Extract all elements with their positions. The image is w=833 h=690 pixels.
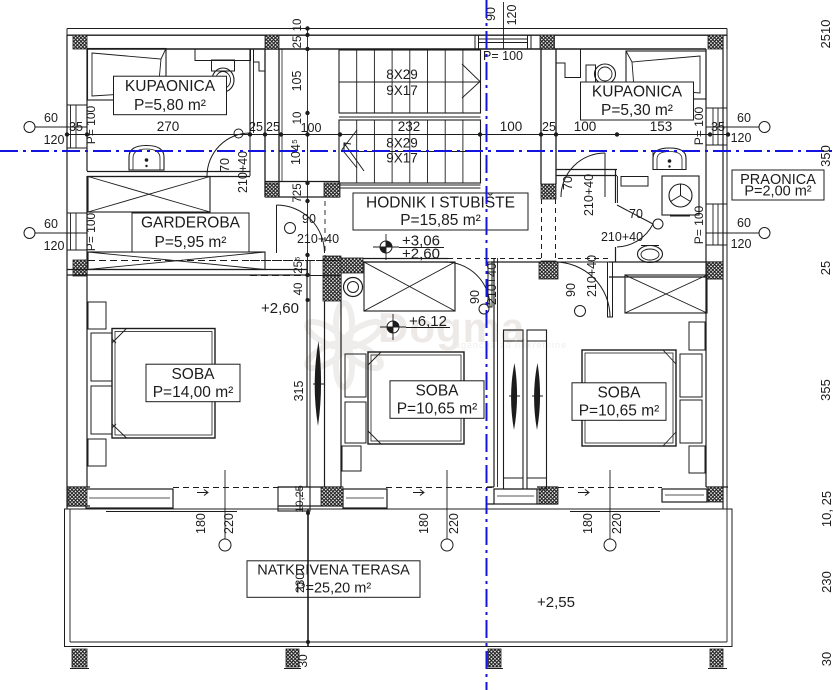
svg-text:+2,60: +2,60 [261, 300, 299, 317]
svg-text:725: 725 [292, 183, 304, 202]
toilet left bathroom [212, 60, 235, 71]
svg-text:120: 120 [731, 237, 752, 251]
room label GARDEROBA [132, 213, 249, 252]
svg-text:180: 180 [581, 513, 595, 534]
svg-text:KUPAONICA: KUPAONICA [592, 84, 683, 101]
bed soba3 fold marks [663, 350, 676, 364]
svg-text:100: 100 [500, 119, 523, 134]
toilet right bathroom [586, 65, 596, 83]
staircase lower flight [339, 120, 481, 183]
bed soba2 fold marks [368, 352, 381, 365]
vertical dimension line left of stairs [307, 29, 309, 276]
svg-text:70: 70 [218, 158, 232, 172]
counter left bathroom [195, 49, 251, 61]
svg-text:9X17: 9X17 [386, 151, 418, 166]
column hatch stairs south [324, 183, 340, 197]
elevation marker hodnik +3,06 [373, 234, 399, 260]
column hatch corridor east low [541, 261, 556, 276]
svg-text:8X29: 8X29 [386, 136, 418, 151]
svg-text:SOBA: SOBA [415, 383, 459, 400]
column hatch soba2 west vertical [323, 256, 341, 301]
room label HODNIK I STUBISTE [353, 193, 528, 230]
room label KUPAONICA right [581, 82, 694, 120]
svg-text:2510: 2510 [818, 20, 833, 49]
svg-text:GARDEROBA: GARDEROBA [141, 215, 241, 232]
svg-text:315: 315 [292, 381, 306, 402]
column hatch soba3 ne [707, 262, 723, 279]
svg-text:NATKRIVENA TERASA: NATKRIVENA TERASA [257, 563, 410, 579]
svg-text:SOBA: SOBA [171, 366, 215, 383]
bed soba1 nightstands [88, 302, 106, 329]
bathtub right [626, 51, 706, 99]
bathtub left [88, 49, 167, 101]
corridor inner face line [281, 49, 283, 182]
bottom window SOBA2 [343, 489, 387, 508]
column hatch top-right [708, 35, 723, 49]
left wall window 2 (garderoba) [67, 212, 87, 214]
bed soba3 [582, 350, 676, 446]
svg-text:+2,60: +2,60 [402, 246, 440, 263]
soba2 north wall dashed opening [448, 258, 491, 260]
outline roof overhang left [66, 29, 68, 510]
column hatch soba2 west horizontal [341, 258, 363, 273]
svg-text:105: 105 [290, 71, 304, 92]
svg-text:25⁵: 25⁵ [293, 256, 305, 274]
column hatch top wall / corridor [265, 35, 279, 49]
bed soba3 pillows [680, 354, 702, 397]
svg-text:P=15,85 m²: P=15,85 m² [400, 212, 481, 229]
svg-text:230: 230 [819, 571, 833, 593]
right leader circle 2 [706, 232, 759, 234]
terrace door leader soba2 [446, 470, 448, 539]
soba3 north wall dashed opening [558, 258, 609, 260]
svg-text:180: 180 [417, 513, 431, 534]
column hatch left wall bottom [68, 487, 87, 506]
svg-text:25: 25 [292, 36, 304, 49]
staircase landing lines [339, 116, 481, 118]
svg-text:KUPAONICA: KUPAONICA [125, 78, 216, 95]
svg-text:210+40: 210+40 [585, 255, 599, 297]
bottom wall of rooms [67, 486, 90, 488]
terrace post hatch 4 [710, 649, 723, 667]
svg-text:P=5,80 m²: P=5,80 m² [134, 97, 206, 114]
svg-text:270: 270 [157, 119, 180, 134]
svg-text:120: 120 [44, 239, 65, 253]
svg-text:90: 90 [302, 212, 316, 226]
column hatch left wall mid [73, 260, 87, 276]
corridor west wall (left of stairs) [264, 49, 266, 197]
svg-text:35: 35 [711, 120, 725, 134]
svg-text:P=25,20 m²: P=25,20 m² [296, 581, 372, 597]
svg-text:120: 120 [44, 133, 65, 147]
svg-text:agencija za nekretnine: agencija za nekretnine [455, 340, 567, 350]
bottom window SOBA1 [86, 489, 173, 508]
column hatch top wall right of stairs [540, 35, 555, 49]
left leader circle 1 [35, 126, 87, 128]
garderoba door (from hall) [277, 205, 325, 253]
svg-text:P= 100: P= 100 [483, 49, 523, 63]
svg-text:30: 30 [296, 654, 310, 668]
sink praonica lobby [653, 148, 686, 170]
svg-text:60: 60 [737, 111, 751, 125]
right leader circle 1 [706, 126, 759, 128]
bed soba2 [368, 352, 464, 444]
svg-text:350: 350 [818, 145, 833, 167]
main horizontal dimension line [67, 134, 728, 136]
wall between soba1 and soba2 [306, 260, 308, 487]
svg-text:210+40: 210+40 [236, 151, 250, 193]
bed soba1 pillows [91, 333, 112, 381]
soba2 north wall [341, 258, 448, 260]
left exterior wall [66, 35, 68, 509]
blue axis vertical [486, 0, 488, 690]
svg-text:60: 60 [737, 216, 751, 230]
room label SOBA 1 [146, 364, 240, 402]
svg-text:60: 60 [44, 217, 58, 231]
svg-text:P=5,95 m²: P=5,95 m² [155, 234, 227, 251]
cabinet praonica [621, 177, 648, 187]
svg-text:25: 25 [818, 261, 833, 275]
svg-text:8X29: 8X29 [386, 67, 418, 82]
outline roof overhang right [726, 29, 728, 510]
bottom window SOBA3a [494, 489, 537, 504]
stair walk arrow [344, 143, 364, 171]
svg-text:220: 220 [447, 513, 461, 534]
bathroom1 door [207, 133, 250, 176]
terrace post hatch 2 [286, 649, 299, 667]
svg-text:P=2,00 m²: P=2,00 m² [744, 183, 811, 199]
terrace slab outline [65, 509, 733, 647]
svg-text:P= 100: P= 100 [692, 106, 706, 145]
elevation marker soba2 +6,12 [380, 314, 406, 340]
svg-text:+2,55: +2,55 [537, 594, 575, 611]
svg-text:90: 90 [564, 283, 578, 297]
svg-text:60: 60 [44, 111, 58, 125]
garderoba south wall [67, 269, 307, 271]
svg-text:100: 100 [574, 119, 597, 134]
dashed wall corridor east lower [541, 199, 543, 261]
column hatch bottom wall soba2/3 [539, 487, 558, 504]
terrace door arrows [197, 490, 208, 496]
svg-text:220: 220 [610, 513, 624, 534]
stair break mark lower [342, 130, 357, 168]
svg-text:SOBA: SOBA [597, 385, 641, 402]
svg-text:70: 70 [629, 207, 643, 221]
room label SOBA 2 [390, 381, 484, 419]
bed soba2 nightstand [342, 446, 361, 471]
svg-text:120: 120 [505, 5, 519, 26]
sliding leaf soba1/2 [315, 341, 321, 426]
svg-text:120: 120 [731, 131, 752, 145]
svg-text:P= 100: P= 100 [84, 212, 98, 251]
garderoba lower dashed centerline [88, 260, 340, 262]
dashed line x=325 [324, 201, 326, 276]
svg-text:P= 100: P= 100 [692, 205, 706, 244]
toilet wc [638, 246, 663, 263]
column hatch corridor west [265, 183, 279, 197]
column hatch right wall mid [708, 262, 723, 279]
garderoba wardrobe lower flat X [88, 252, 265, 270]
svg-text:232: 232 [398, 119, 421, 134]
svg-text:230: 230 [293, 573, 307, 593]
svg-text:10,25: 10,25 [294, 485, 306, 513]
svg-text:P=10,65 m²: P=10,65 m² [397, 400, 478, 417]
svg-text:35: 35 [69, 120, 83, 134]
praonica lobby north wall [556, 169, 617, 171]
bathroom1 east wall [249, 49, 251, 133]
soba3 wardrobe column 2 [527, 330, 547, 489]
top wall window [475, 35, 479, 49]
svg-text:355: 355 [818, 379, 833, 401]
room label NATKRIVENA TERASA [247, 561, 420, 598]
column hatch top-left [73, 35, 87, 49]
wall between soba2 and soba3 [493, 258, 495, 487]
svg-text:P=5,30 m²: P=5,30 m² [601, 102, 673, 119]
wc door [617, 205, 653, 247]
svg-text:40: 40 [293, 283, 305, 296]
washer niche wall [652, 152, 654, 170]
stair break mark upper [462, 64, 480, 98]
bed soba1 [112, 329, 215, 439]
svg-text:100: 100 [301, 121, 322, 135]
svg-text:210+40: 210+40 [582, 174, 596, 216]
terrace door leader soba3 [609, 470, 611, 539]
garderoba wardrobe upper with X [88, 177, 210, 213]
wall under stairs [265, 181, 340, 183]
svg-text:10, 25: 10, 25 [819, 491, 833, 527]
column hatch soba3 nw [539, 262, 558, 279]
blue axis horizontal [0, 150, 833, 152]
svg-text:70: 70 [561, 176, 575, 190]
dashed ticks below corridor [250, 260, 340, 262]
soba3 north wall [541, 261, 558, 263]
bathroom1 south wall [87, 171, 250, 173]
right wall window 2 (praonica) [706, 203, 727, 205]
washing machine [662, 176, 699, 215]
svg-text:9X17: 9X17 [386, 83, 418, 98]
svg-text:220: 220 [222, 513, 236, 534]
room label PRAONICA [732, 170, 824, 200]
sink left bathroom [129, 146, 164, 171]
svg-text:P=14,00 m²: P=14,00 m² [153, 384, 234, 401]
lobby door from hodnik [561, 153, 605, 197]
bottom wall dashed opening heads [173, 487, 281, 489]
wc west wall [615, 170, 617, 203]
terrace door leader soba1 [224, 470, 226, 539]
left leader circle 2 [35, 232, 87, 234]
right exterior wall [705, 49, 707, 487]
room label KUPAONICA left [114, 76, 227, 115]
vent niche left bathroom [254, 49, 266, 71]
column hatch right wall bottom [708, 487, 723, 502]
svg-text:25: 25 [542, 120, 556, 134]
svg-text:10: 10 [292, 19, 304, 32]
staircase upper flight [339, 50, 481, 113]
vent niche right bathroom [556, 49, 581, 78]
bed soba1 fold marks [112, 329, 127, 344]
top dimension line above stairs window [503, 2, 505, 49]
svg-text:30: 30 [819, 652, 833, 666]
soba3 door [555, 262, 610, 317]
column hatch corridor east [541, 184, 556, 199]
terrace post hatch 1 [72, 649, 87, 667]
bed soba2 pillows [345, 354, 366, 397]
right wall window 1 (bathroom2) [706, 107, 727, 109]
top exterior wall [67, 34, 727, 36]
room label SOBA 3 [572, 383, 666, 421]
terrace divider wall line [307, 509, 309, 647]
svg-text:HODNIK I STUBIŠTE: HODNIK I STUBIŠTE [366, 195, 515, 212]
terrace post hatch 3 [488, 649, 501, 667]
circle fixture soba2 nw [344, 278, 363, 297]
soba3 wardrobe column 1 [504, 330, 524, 489]
watermark Dogma logo flower [304, 303, 385, 387]
corridor east wall (right of stairs) [540, 49, 542, 184]
svg-text:90: 90 [468, 290, 482, 304]
bed soba3 nightstands [689, 322, 705, 350]
svg-text:210+40: 210+40 [297, 232, 339, 246]
bottom window SOBA3b [662, 489, 707, 502]
svg-text:25: 25 [249, 120, 263, 134]
soba2 door [445, 262, 490, 307]
stair bottom edge [339, 184, 481, 186]
svg-text:153: 153 [650, 119, 673, 134]
svg-text:210+40: 210+40 [601, 230, 643, 244]
left wall window 1 (bathroom) [67, 104, 87, 106]
svg-text:25: 25 [266, 120, 280, 134]
soba2 wardrobe X [364, 262, 455, 311]
door post bottom SOBA1 [278, 487, 310, 511]
svg-text:P= 100: P= 100 [84, 105, 98, 144]
svg-text:P=10,65 m²: P=10,65 m² [579, 402, 660, 419]
svg-text:180: 180 [194, 513, 208, 534]
outline roof overhang top [67, 28, 727, 30]
soba3 wardrobe X [625, 275, 707, 313]
column hatch bottom wall soba1/2 [321, 487, 343, 506]
